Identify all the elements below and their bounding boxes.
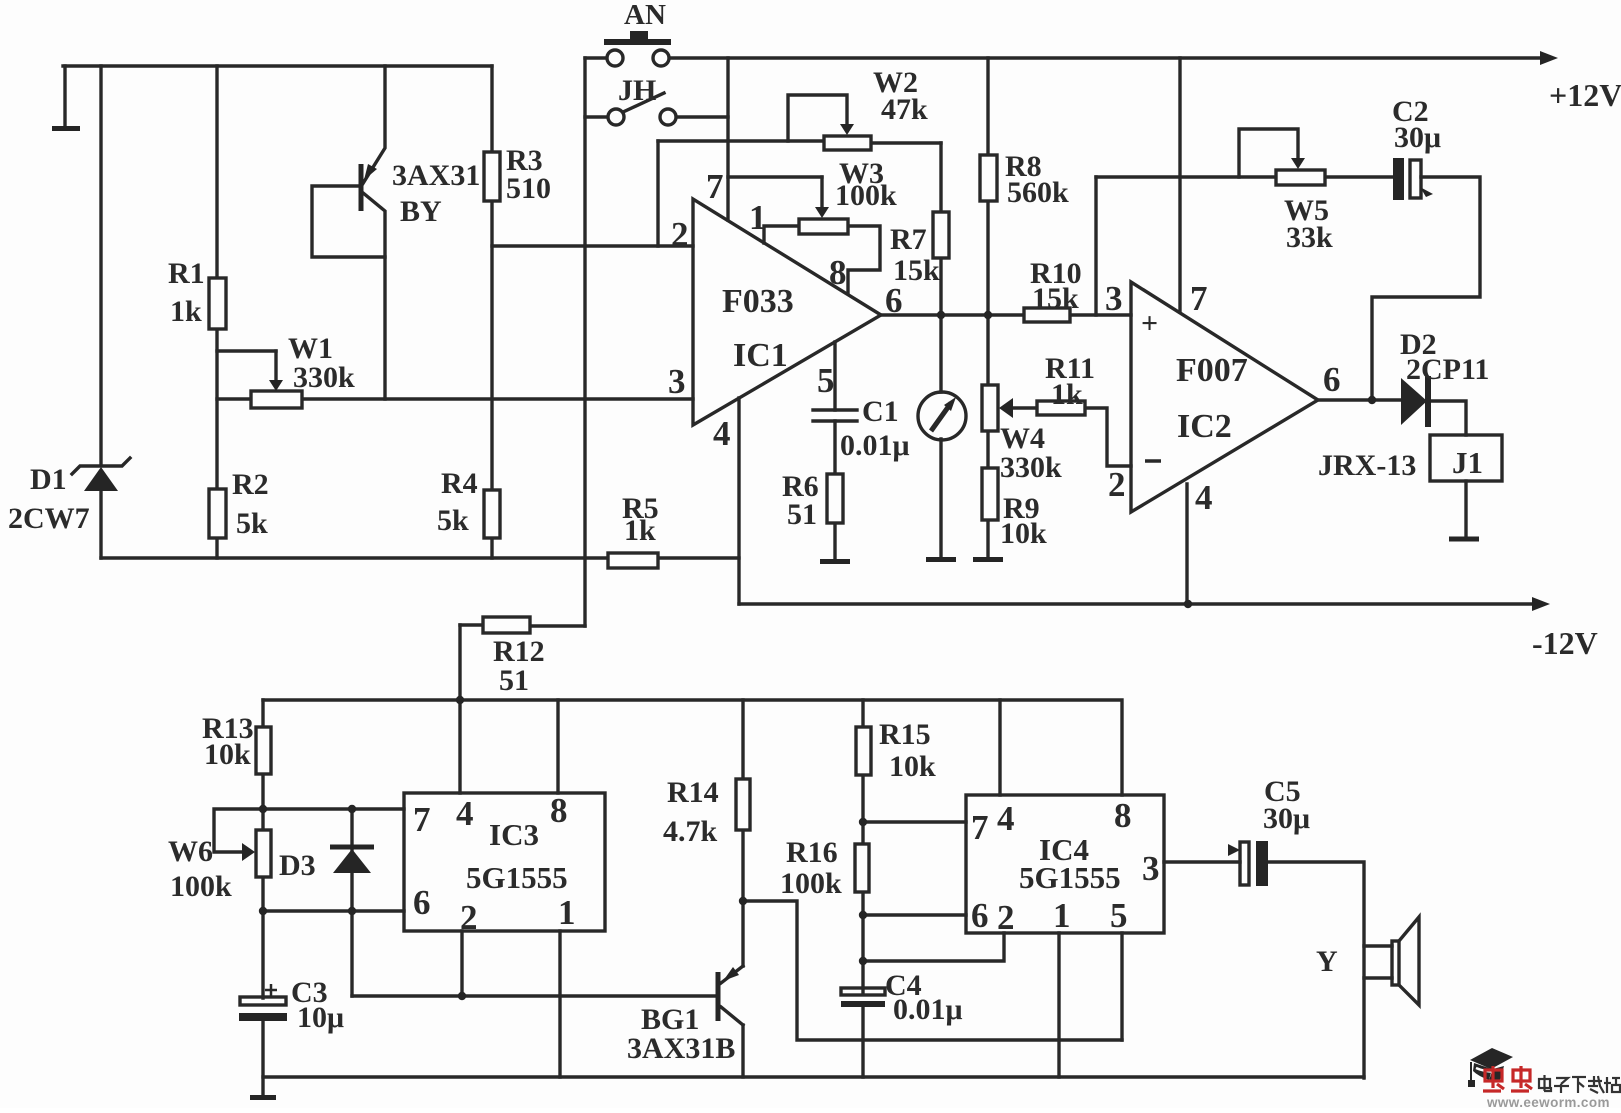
svg-text:6: 6 bbox=[1323, 360, 1341, 399]
svg-text:6: 6 bbox=[413, 883, 431, 922]
svg-text:D3: D3 bbox=[279, 849, 316, 882]
svg-text:2: 2 bbox=[460, 898, 478, 937]
svg-text:+12V: +12V bbox=[1549, 77, 1621, 113]
svg-text:BY: BY bbox=[400, 195, 442, 228]
svg-text:33k: 33k bbox=[1286, 221, 1333, 254]
svg-text:8: 8 bbox=[1114, 796, 1132, 835]
svg-text:1: 1 bbox=[558, 893, 576, 932]
svg-text:1k: 1k bbox=[170, 295, 202, 328]
svg-text:2: 2 bbox=[671, 215, 689, 254]
svg-text:R2: R2 bbox=[232, 468, 269, 501]
svg-text:100k: 100k bbox=[835, 179, 897, 212]
svg-text:AN: AN bbox=[624, 0, 666, 31]
svg-text:R4: R4 bbox=[441, 467, 478, 500]
svg-text:0.01μ: 0.01μ bbox=[893, 993, 963, 1026]
svg-text:3AX31B: 3AX31B bbox=[627, 1032, 735, 1065]
svg-text:+: + bbox=[1141, 307, 1158, 340]
svg-text:4: 4 bbox=[1195, 478, 1213, 517]
svg-text:4.7k: 4.7k bbox=[663, 815, 718, 848]
svg-text:W6: W6 bbox=[168, 835, 213, 868]
svg-text:D1: D1 bbox=[30, 463, 67, 496]
svg-text:5k: 5k bbox=[437, 504, 469, 537]
svg-text:4: 4 bbox=[456, 794, 474, 833]
svg-text:51: 51 bbox=[499, 664, 529, 697]
svg-text:R1: R1 bbox=[168, 257, 205, 290]
svg-text:10k: 10k bbox=[889, 750, 936, 783]
svg-text:JH: JH bbox=[618, 74, 656, 107]
svg-text:330k: 330k bbox=[293, 361, 355, 394]
svg-text:www.eeworm.com: www.eeworm.com bbox=[1486, 1095, 1610, 1108]
svg-text:1k: 1k bbox=[624, 514, 656, 547]
svg-text:7: 7 bbox=[971, 808, 989, 847]
svg-text:1: 1 bbox=[749, 198, 767, 237]
svg-text:Y: Y bbox=[1316, 945, 1338, 978]
svg-text:-12V: -12V bbox=[1532, 625, 1598, 661]
svg-text:C1: C1 bbox=[862, 395, 899, 428]
svg-text:J1: J1 bbox=[1452, 445, 1483, 480]
svg-text:3AX31: 3AX31 bbox=[392, 159, 480, 192]
svg-text:JRX-13: JRX-13 bbox=[1318, 449, 1416, 482]
svg-text:5k: 5k bbox=[236, 507, 268, 540]
svg-text:3: 3 bbox=[1142, 849, 1160, 888]
svg-text:5: 5 bbox=[817, 361, 835, 400]
svg-text:5: 5 bbox=[1110, 896, 1128, 935]
svg-text:4: 4 bbox=[713, 414, 731, 453]
svg-text:IC1: IC1 bbox=[733, 337, 788, 374]
svg-text:5G1555: 5G1555 bbox=[466, 860, 568, 895]
svg-text:10k: 10k bbox=[1000, 517, 1047, 550]
svg-text:R7: R7 bbox=[890, 223, 927, 256]
svg-text:6: 6 bbox=[971, 896, 989, 935]
svg-text:IC2: IC2 bbox=[1177, 408, 1232, 445]
svg-text:7: 7 bbox=[706, 167, 724, 206]
svg-text:3: 3 bbox=[668, 362, 686, 401]
svg-text:510: 510 bbox=[506, 172, 551, 205]
svg-text:7: 7 bbox=[1190, 279, 1208, 318]
svg-text:8: 8 bbox=[550, 791, 568, 830]
svg-text:51: 51 bbox=[787, 498, 817, 531]
svg-text:2CP11: 2CP11 bbox=[1406, 353, 1489, 386]
svg-text:10μ: 10μ bbox=[297, 1001, 344, 1034]
svg-text:100k: 100k bbox=[780, 867, 842, 900]
svg-text:2: 2 bbox=[1108, 465, 1126, 504]
svg-text:R15: R15 bbox=[879, 718, 931, 751]
svg-text:IC3: IC3 bbox=[489, 817, 539, 852]
svg-text:10k: 10k bbox=[204, 738, 251, 771]
svg-text:100k: 100k bbox=[170, 870, 232, 903]
svg-text:15k: 15k bbox=[1032, 282, 1079, 315]
svg-text:30μ: 30μ bbox=[1263, 802, 1310, 835]
svg-text:1: 1 bbox=[1053, 896, 1071, 935]
svg-text:560k: 560k bbox=[1007, 176, 1069, 209]
svg-text:6: 6 bbox=[885, 281, 903, 320]
svg-text:5G1555: 5G1555 bbox=[1019, 860, 1121, 895]
svg-text:0.01μ: 0.01μ bbox=[840, 429, 910, 462]
svg-text:2CW7: 2CW7 bbox=[8, 502, 90, 535]
svg-text:3: 3 bbox=[1105, 279, 1123, 318]
svg-text:F007: F007 bbox=[1176, 352, 1248, 389]
svg-text:R14: R14 bbox=[667, 776, 719, 809]
svg-text:330k: 330k bbox=[1000, 451, 1062, 484]
svg-text:7: 7 bbox=[413, 800, 431, 839]
svg-text:1k: 1k bbox=[1051, 378, 1083, 411]
svg-text:4: 4 bbox=[997, 799, 1015, 838]
svg-text:30μ: 30μ bbox=[1394, 121, 1441, 154]
svg-text:F033: F033 bbox=[722, 283, 794, 320]
svg-text:8: 8 bbox=[829, 253, 847, 292]
svg-text:47k: 47k bbox=[881, 93, 928, 126]
svg-text:R16: R16 bbox=[786, 836, 838, 869]
svg-text:2: 2 bbox=[997, 898, 1015, 937]
